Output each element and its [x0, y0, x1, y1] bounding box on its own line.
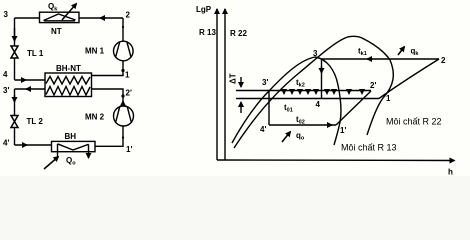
chart labels: [196, 5, 453, 177]
R13 dome: [232, 57, 341, 145]
svg-text:4: 4: [316, 100, 321, 109]
schematic labels: [3, 2, 132, 167]
svg-text:3: 3: [4, 10, 9, 19]
heat transfer arrows: [284, 91, 362, 94]
compression 1-2: [379, 59, 439, 99]
wire MN1 to node 2: [122, 18, 124, 41]
compressor MN1: [114, 41, 134, 61]
flow arrow up to 2': [122, 101, 124, 104]
wire node3 to NT: [15, 17, 40, 19]
svg-text:ΔT: ΔT: [229, 73, 238, 84]
node tick below MN2: [122, 136, 124, 138]
svg-text:R 13: R 13: [199, 28, 216, 37]
flow arrow into BH: [22, 144, 27, 146]
expansion valve TL1: [11, 46, 18, 58]
R13 line arrowhead: [224, 9, 226, 13]
BH-NT coil row 1: [46, 77, 90, 85]
svg-text:2': 2': [126, 89, 132, 98]
qk arrow: [398, 47, 405, 56]
R22 dome: [234, 36, 393, 148]
svg-text:Môi chất R 22: Môi chất R 22: [386, 117, 442, 127]
delta T arrows: [240, 77, 242, 87]
svg-text:2: 2: [126, 11, 131, 20]
expansion 3-4: [321, 59, 323, 99]
condenser NT: [40, 12, 80, 22]
svg-text:3': 3': [262, 78, 268, 87]
svg-text:1: 1: [386, 94, 391, 103]
svg-text:NT: NT: [51, 27, 62, 36]
wire 4' to BH: [15, 144, 52, 146]
wire BH-NT to node 3': [15, 88, 46, 90]
svg-text:2': 2': [370, 81, 376, 90]
wire 4 to BH-NT: [15, 79, 46, 81]
svg-text:1': 1': [340, 126, 346, 135]
arrow on top wire: [100, 17, 106, 19]
qo arrow: [282, 132, 291, 143]
evaporator BH: [52, 141, 96, 151]
cascade HX BH-NT: [45, 73, 92, 97]
svg-text:TL 1: TL 1: [27, 49, 44, 58]
tk1 line 3 to 2: [322, 58, 440, 60]
svg-text:1: 1: [125, 71, 130, 80]
flow arrow to node 3': [26, 88, 30, 90]
heat arrow Qk: [62, 4, 77, 21]
compression 1'-2': [336, 91, 371, 125]
expansion 3'-4': [268, 91, 270, 126]
svg-text:R 22: R 22: [230, 29, 247, 38]
svg-text:4: 4: [3, 70, 8, 79]
delta T lower arrow: [240, 102, 242, 113]
svg-text:LgP: LgP: [196, 5, 212, 14]
wire MN2 to 2' corner: [92, 89, 124, 106]
BH coil left leg: [57, 144, 59, 158]
flow arrow on tk1: [367, 58, 373, 60]
svg-text:TL 2: TL 2: [27, 117, 44, 126]
flow arrow down bus A: [14, 28, 16, 41]
flow arrow down bus B: [14, 95, 16, 102]
wire NT to node2 corner: [79, 17, 123, 19]
wire BH-NT to node 1: [92, 61, 124, 76]
wire BH to 1': [95, 126, 123, 146]
tk2 line: [236, 90, 371, 92]
left bus A (3 to TL1): [14, 18, 16, 46]
svg-text:4': 4': [260, 125, 266, 134]
BH-NT coil row 2: [46, 87, 90, 96]
node 2' dot: [121, 94, 124, 97]
svg-text:4': 4': [3, 139, 9, 148]
LgP axis: [216, 9, 218, 160]
NT coil: [44, 14, 76, 21]
BH coil: [58, 144, 89, 150]
arrow on 3-4: [321, 66, 323, 73]
svg-text:1': 1': [126, 145, 132, 154]
svg-text:BH: BH: [65, 132, 77, 141]
LgP axis arrowhead: [216, 9, 218, 13]
svg-text:MN 1: MN 1: [85, 47, 105, 56]
second vertical (R13 line): [224, 9, 226, 160]
svg-text:MN 2: MN 2: [85, 113, 105, 122]
heat arrow Qo: [44, 157, 59, 170]
h axis: [217, 159, 455, 162]
compressor MN2: [114, 106, 134, 126]
svg-text:BH-NT: BH-NT: [56, 64, 81, 73]
flow arrow into BH-NT: [21, 79, 26, 81]
svg-text:Môi chất R 13: Môi chất R 13: [341, 143, 397, 153]
node 1 dot: [121, 69, 124, 72]
svg-text:3: 3: [313, 49, 318, 58]
MN2 symbol: [116, 107, 132, 123]
BH outlet arrow: [88, 144, 90, 158]
svg-text:h: h: [448, 168, 453, 177]
wire TL2 to node 4': [14, 128, 16, 146]
svg-text:2: 2: [441, 56, 446, 65]
wire TL1 to node 4: [14, 58, 16, 80]
expansion valve TL2: [11, 116, 18, 128]
flow arrow on t02: [327, 124, 332, 126]
t02 line 4' to 1': [269, 124, 336, 126]
node tick above MN1: [122, 26, 124, 28]
left bus B (3' to TL2): [14, 89, 16, 116]
t01 line: [236, 98, 379, 100]
MN1 symbol: [116, 42, 131, 58]
svg-text:3': 3': [3, 86, 9, 95]
